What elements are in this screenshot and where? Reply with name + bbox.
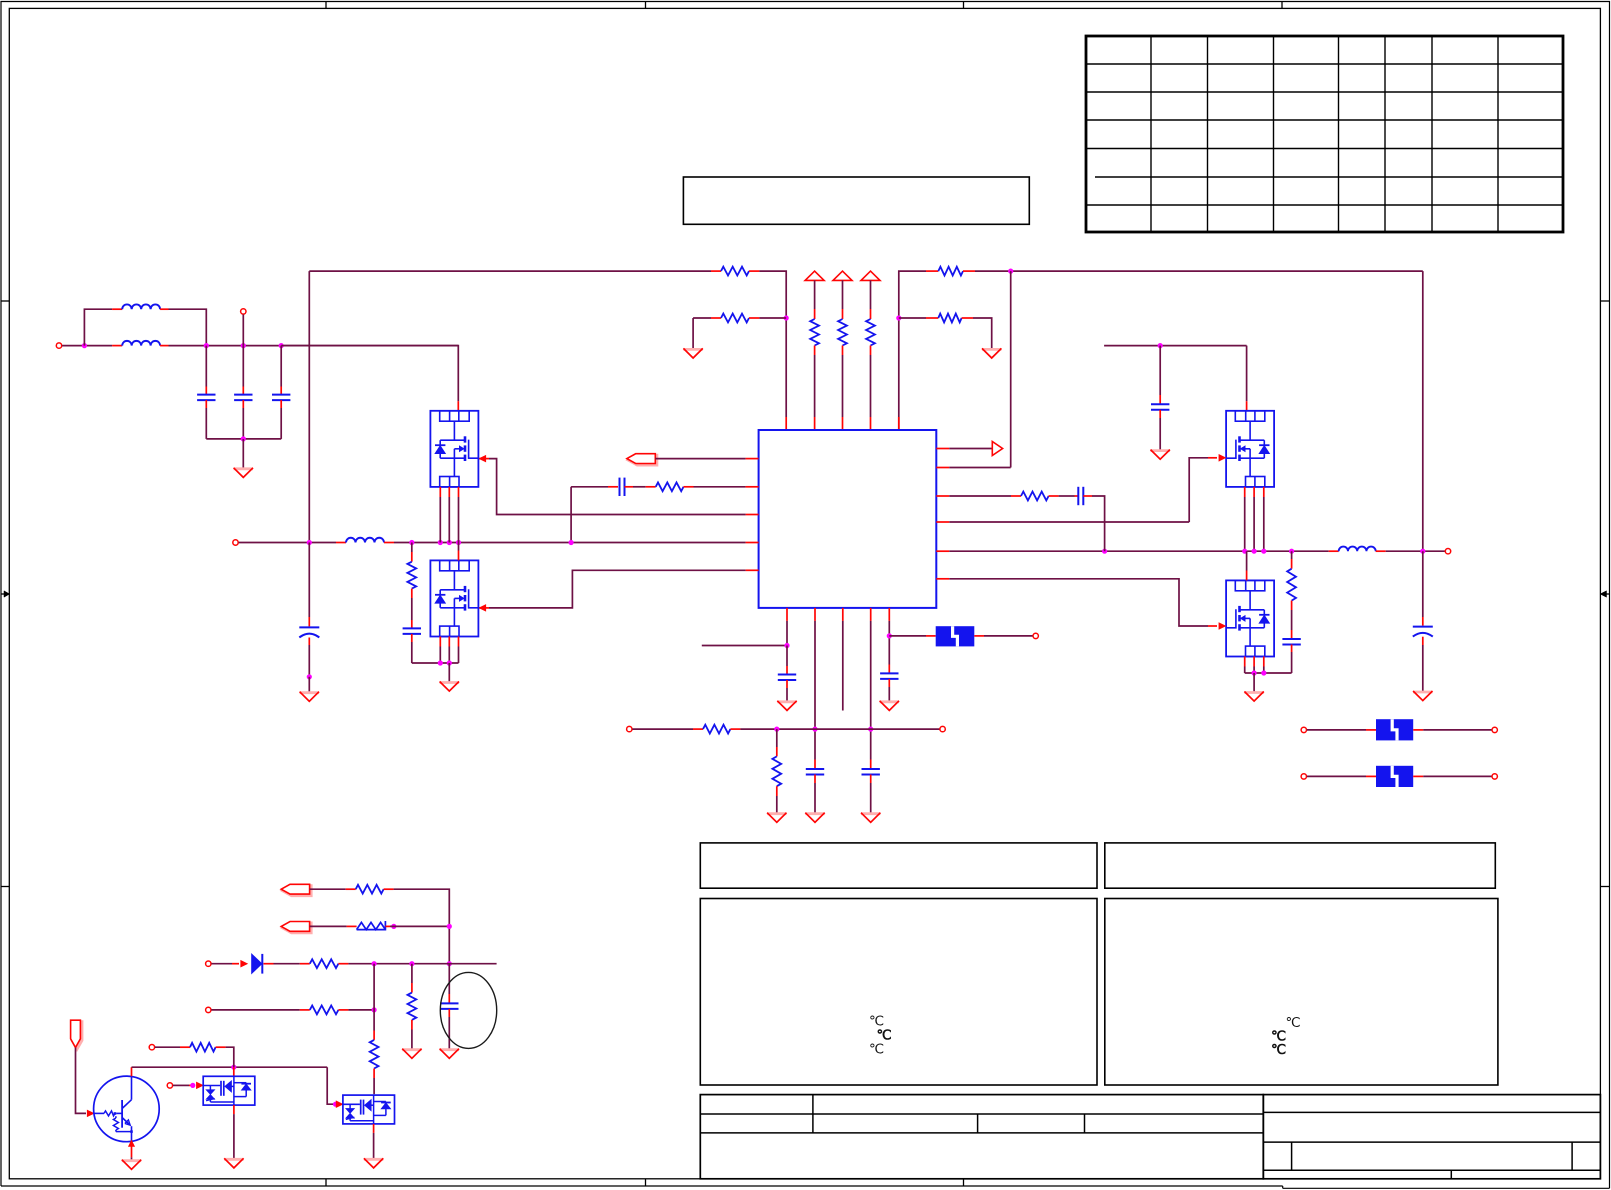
resistor R16	[310, 959, 349, 968]
wire Q3 drain	[1246, 346, 1248, 411]
ground G18	[364, 1158, 383, 1168]
wire NT2 left	[1307, 729, 1376, 731]
capacitor C7	[1151, 346, 1169, 450]
junction A3	[279, 343, 284, 348]
wire R8 to U1	[694, 486, 759, 488]
junction C1j	[409, 540, 414, 545]
power arrow P2	[833, 271, 852, 280]
capacitor C14	[880, 673, 898, 700]
wire C4 to R8	[625, 486, 656, 488]
svg-text:℃: ℃	[869, 1014, 884, 1029]
ground G13	[767, 813, 786, 823]
resistor R20	[190, 1043, 226, 1052]
wire Q1 pins bottom	[440, 487, 458, 543]
capacitor C2	[234, 346, 252, 439]
wire to net tie NT1	[889, 635, 935, 637]
wire Q5 emitter	[129, 1140, 135, 1159]
title block	[700, 1095, 1600, 1179]
wire Q4 pins bottom	[1245, 657, 1264, 674]
ground G2	[683, 348, 702, 358]
wire J9	[155, 1046, 190, 1048]
resistor R18 vertical	[370, 1040, 379, 1094]
wire rail right	[975, 270, 1423, 272]
wire row2 down to bus	[570, 487, 572, 543]
junction M3j	[333, 1102, 338, 1107]
wire F3 to base	[76, 1048, 95, 1117]
svg-text:℃: ℃	[1286, 1015, 1301, 1030]
wire F2	[310, 925, 357, 927]
junction G2j	[1261, 670, 1266, 675]
terminal J3 output	[1445, 549, 1450, 554]
wire cap bottoms	[206, 438, 281, 440]
resistor R19 vertical	[408, 964, 417, 1049]
junction K2j	[447, 924, 452, 929]
wire F2 right	[390, 925, 449, 927]
wire Q4 source node	[1245, 672, 1292, 674]
junction M1j	[231, 1065, 236, 1070]
wire R1 to pin	[759, 271, 786, 430]
title box	[683, 177, 1029, 224]
resistor R11	[1021, 492, 1059, 501]
wire rail top left	[309, 270, 721, 272]
ground G10	[805, 813, 824, 823]
capacitor C15	[440, 964, 458, 1049]
wire Q4 drain	[1246, 551, 1248, 580]
resistor R8	[656, 482, 694, 491]
power arrow P1	[805, 271, 824, 280]
wire Q4 gate	[936, 579, 1225, 630]
wire row2	[211, 1009, 309, 1011]
wire row bottom2	[740, 728, 939, 730]
protection fet U2	[203, 1076, 255, 1105]
wire R14 right	[394, 889, 450, 964]
wire U1 bpin1	[786, 608, 788, 646]
wire to ground G5	[448, 663, 450, 682]
capacitor C8 output	[1413, 551, 1433, 691]
inductor L4	[1339, 547, 1386, 552]
resistor R14	[356, 885, 394, 894]
junction D1j	[438, 660, 443, 665]
wire NT1 out	[974, 635, 1032, 637]
resistor R7	[938, 267, 975, 276]
terminal J10	[167, 1083, 172, 1088]
junction C6j	[307, 540, 312, 545]
ground G5	[440, 682, 459, 692]
ground G16	[122, 1160, 141, 1170]
wire input rail	[169, 345, 459, 347]
transistor Q4	[1226, 580, 1274, 656]
terminal T1	[241, 309, 246, 314]
diode D1	[252, 954, 263, 974]
wire U1 bpin5	[888, 608, 890, 674]
highlight ellipse	[440, 972, 496, 1048]
ground G9	[777, 701, 796, 711]
wire row2 right	[348, 1009, 374, 1011]
wire collector to U3 gate	[327, 1067, 337, 1104]
wire U1 bpin3 stub	[842, 608, 844, 711]
wire U1 pin row1 left	[655, 458, 758, 460]
terminal J6	[940, 726, 945, 731]
resistor R17	[310, 1006, 349, 1015]
output arrow symbol	[936, 442, 1002, 456]
wire Q3 pins bottom	[1245, 487, 1264, 551]
resistor R5 vertical	[866, 280, 875, 430]
wire Q2 pins bottom	[440, 637, 458, 664]
wire row bottom	[632, 728, 703, 730]
junction F2j	[1242, 549, 1247, 554]
capacitor C10	[1075, 487, 1093, 505]
terminal J1 input	[56, 343, 61, 348]
wire diode out	[264, 963, 310, 965]
net tie NT1	[936, 626, 975, 646]
wire bus	[394, 542, 759, 544]
flag net arrow F2	[281, 922, 311, 933]
ground G12	[880, 701, 899, 711]
note box 1	[700, 899, 1097, 1086]
junction K5j	[409, 961, 414, 966]
junction H1j	[784, 643, 789, 648]
wire to ground G8	[1253, 673, 1255, 692]
wire bus left	[239, 542, 346, 544]
wire C10 down	[1092, 496, 1105, 551]
wire diode in	[211, 960, 247, 967]
transistor Q3	[1226, 411, 1274, 487]
resistor R4 vertical	[838, 280, 847, 430]
power arrow P3	[861, 271, 880, 280]
transistor Q5	[94, 1076, 160, 1142]
junction F5j	[1289, 549, 1294, 554]
ground G7	[1413, 691, 1432, 701]
wire Q2 top pin	[458, 543, 460, 561]
wire right stub	[1104, 345, 1247, 347]
terminal J8	[206, 1007, 211, 1012]
junction F6j	[1420, 549, 1425, 554]
junction B3	[1008, 269, 1013, 274]
flag net arrow F3	[71, 1020, 82, 1049]
svg-text:℃: ℃	[869, 1042, 884, 1057]
junction F4j	[1261, 549, 1266, 554]
protection fet U3	[343, 1095, 395, 1124]
junction K4j	[372, 961, 377, 966]
junction H4j	[887, 633, 892, 638]
terminal J11	[1301, 727, 1306, 732]
svg-text:℃: ℃	[877, 1028, 893, 1043]
wire gate arrow U3	[336, 1101, 343, 1108]
frame centering arrow right	[1600, 591, 1609, 597]
wire U1 row2 left	[571, 486, 618, 488]
wire U3 bottom	[373, 1124, 375, 1158]
note box 1 degree labels	[869, 1014, 893, 1057]
junction B1	[784, 315, 789, 320]
terminal J7	[206, 961, 211, 966]
capacitor C12	[806, 769, 824, 813]
revision table	[1086, 36, 1563, 232]
note box 2 header	[1105, 843, 1496, 888]
ground G4	[300, 692, 319, 702]
wire U1 row2 right	[936, 467, 1010, 469]
wire U2 top pin	[233, 1067, 235, 1076]
wire input to Q1 drain	[281, 346, 458, 411]
resistor R9 vertical	[407, 543, 416, 621]
resistor R10 vertical	[1287, 551, 1296, 630]
wire NT2 right	[1413, 729, 1491, 731]
junction C3j	[447, 540, 452, 545]
junction input split	[82, 343, 87, 348]
wire Q5 collector	[132, 1067, 328, 1076]
ground G3	[982, 348, 1001, 358]
terminal J2 phase left	[233, 540, 238, 545]
capacitor C13	[862, 769, 880, 813]
wire L1 out	[169, 309, 207, 345]
ground G8	[1244, 692, 1263, 702]
junction A1	[204, 343, 209, 348]
transistor Q2	[430, 560, 478, 636]
capacitor C3	[272, 346, 290, 439]
junction F1j	[1102, 549, 1107, 554]
ground G17	[224, 1158, 243, 1168]
wire rail vertical	[308, 271, 310, 542]
resistor R2	[711, 314, 759, 323]
wire R20 down	[226, 1047, 234, 1067]
wire U1 row5 gate2	[479, 570, 759, 611]
junction K3j	[447, 961, 452, 966]
terminal J4	[1033, 633, 1038, 638]
wire R2 to ground	[693, 318, 711, 348]
terminal J9	[149, 1045, 154, 1050]
terminal J14	[1492, 774, 1497, 779]
capacitor C6	[403, 620, 421, 663]
inductor L1	[112, 304, 168, 309]
capacitor C9	[1282, 630, 1300, 673]
resistor R6	[899, 314, 973, 323]
wire mid vertical	[373, 964, 375, 1040]
ground G15	[440, 1049, 459, 1059]
resistor R13 vertical	[772, 729, 781, 813]
capacitor C1	[197, 346, 215, 439]
ground G1	[234, 468, 253, 478]
wire U2 bottom	[233, 1105, 235, 1158]
wire R11 to C10	[1059, 495, 1075, 497]
wire U1 row3 right	[936, 495, 1021, 497]
wire to upper inductor	[84, 309, 112, 345]
svg-text:℃: ℃	[1271, 1042, 1287, 1057]
resistor R12	[703, 725, 740, 734]
wire C5 to ground	[308, 677, 310, 692]
wire F1	[310, 888, 356, 890]
ground G14	[402, 1049, 421, 1059]
junction C5j	[569, 540, 574, 545]
wire rail right corner	[899, 271, 939, 430]
wire U1 bpin4	[870, 608, 872, 769]
ground G6	[1151, 450, 1170, 460]
wire U1 bpin2	[814, 608, 816, 769]
wire NT3 right	[1413, 775, 1491, 777]
junction C2j	[438, 540, 443, 545]
wire low node	[412, 662, 459, 664]
wire input	[62, 345, 112, 347]
wire gate arrow U2	[196, 1082, 203, 1089]
wire stub left	[702, 645, 787, 647]
capacitor C11	[778, 646, 796, 701]
wire bus right	[936, 550, 1338, 552]
wire J10 gate	[173, 1084, 195, 1086]
junction M2j	[190, 1083, 195, 1088]
note box 1 header	[700, 843, 1097, 888]
IC U1	[759, 430, 937, 608]
ground G11	[861, 813, 880, 823]
wire L4 out	[1386, 550, 1445, 552]
junction E1j	[1158, 343, 1163, 348]
wire rail down right	[1422, 271, 1424, 551]
inductor L2	[112, 341, 168, 346]
wire node row	[348, 963, 496, 965]
wire to ground	[242, 439, 244, 468]
junction K1j	[391, 924, 396, 929]
inductor L3	[346, 538, 394, 543]
wire R6 to ground	[973, 318, 992, 348]
junction K6j	[372, 1007, 377, 1012]
junction C7j	[307, 674, 312, 679]
junction H3j	[868, 727, 873, 732]
terminal J5	[627, 726, 632, 731]
terminal J12	[1492, 727, 1497, 732]
note box 2	[1105, 899, 1498, 1086]
wire R2 right	[759, 317, 786, 319]
resistor R1	[721, 267, 759, 276]
wire U1 row3 gate1	[479, 455, 759, 514]
junction H2j	[812, 727, 817, 732]
flag net arrow F1	[281, 884, 311, 895]
junction B2	[896, 315, 901, 320]
frame centering arrow left	[1, 591, 10, 597]
resistor R15	[357, 921, 390, 931]
junction I1j	[774, 727, 779, 732]
junction G1j	[1252, 670, 1257, 675]
junction A2	[241, 343, 246, 348]
junction D2j	[447, 660, 452, 665]
capacitor C5 electrolytic	[299, 543, 319, 677]
wire T1	[242, 315, 244, 346]
note box 2 degree labels	[1271, 1015, 1301, 1057]
net tie NT2	[1376, 719, 1413, 740]
flag net arrow IN1	[627, 454, 657, 465]
junction F3j	[1252, 549, 1257, 554]
junction C4j	[456, 540, 461, 545]
transistor Q1	[430, 411, 478, 487]
wire NT3 left	[1307, 775, 1376, 777]
wire Q3 gate	[936, 455, 1225, 523]
capacitor C4	[620, 478, 625, 496]
net tie NT3	[1376, 766, 1413, 787]
wire rail to IC row2	[1010, 271, 1012, 467]
resistor R3 vertical	[810, 280, 819, 430]
terminal J13	[1301, 774, 1306, 779]
junction A4	[241, 436, 246, 441]
